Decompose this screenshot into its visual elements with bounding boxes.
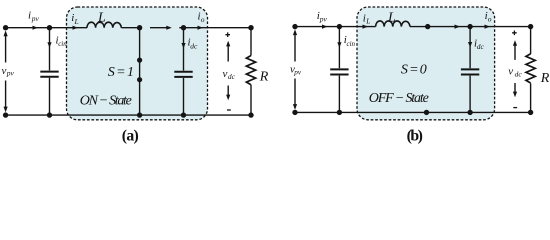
svg-text:L: L: [387, 11, 396, 26]
resistor R (b): [530, 27, 532, 54]
svg-text:pv: pv: [293, 69, 302, 77]
svg-text:L: L: [365, 16, 370, 25]
arrow i_dc (b): [468, 42, 472, 48]
wire top rail (a) stub before Cdc: [179, 27, 183, 29]
svg-text:cin: cin: [58, 40, 67, 48]
dashed converter box (a): [67, 7, 208, 120]
svg-text:o: o: [488, 15, 492, 24]
svg-text:pv: pv: [6, 68, 15, 77]
svg-text:dc: dc: [190, 41, 198, 50]
arrow i_pv (a): [33, 26, 39, 30]
svg-text:v: v: [508, 66, 513, 78]
inductor L (a): [87, 22, 121, 27]
dashed converter box (b): [357, 7, 495, 120]
label i_pv (a): [28, 9, 40, 23]
label S = 1: [108, 65, 134, 80]
svg-text:S = 1: S = 1: [108, 65, 134, 80]
svg-text:OFF − State: OFF − State: [369, 91, 429, 106]
svg-text:v: v: [2, 65, 7, 77]
label ON-State: [80, 94, 132, 109]
wire top rail (a) output section: [184, 27, 252, 29]
arrow i_o (a): [198, 26, 204, 30]
arrow mid rail (a): [166, 26, 172, 30]
capacitor Cdc (a): [183, 28, 185, 115]
voltage annotation v_dc (a): [225, 32, 230, 37]
node dots top rail (a): [3, 25, 8, 30]
inductor L (b): [376, 21, 410, 27]
arrow i_dc (a): [181, 43, 185, 49]
label i_cin (a): [56, 34, 68, 48]
resistor R (a): [250, 28, 252, 56]
arrow i_cin (b): [337, 42, 341, 48]
wire bottom rail (b): [295, 111, 531, 113]
port voltage arrow v_pv (a): [5, 36, 7, 107]
svg-text:S = 0: S = 0: [401, 63, 427, 78]
capacitor Cin (b): [338, 27, 340, 113]
svg-text:pv: pv: [31, 14, 40, 23]
svg-text:R: R: [540, 71, 550, 86]
switch terminal node upper (a): [137, 58, 142, 63]
label OFF-State: [369, 91, 429, 106]
node dots bottom rail (b): [292, 110, 297, 115]
label i_dc (a): [188, 37, 199, 51]
label v_pv (b): [290, 63, 302, 76]
label i_cin (b): [344, 34, 356, 48]
voltage annotation v_dc (b): [512, 31, 517, 36]
arrow i_o (b): [485, 25, 491, 29]
wire top rail (a) left section: [6, 27, 87, 29]
label v_pv (a): [2, 65, 15, 77]
label i_L (b): [363, 13, 371, 26]
svg-text:L: L: [97, 10, 106, 25]
open switch node bottom (b): [424, 110, 429, 115]
svg-text:o: o: [201, 15, 205, 24]
label i_o (a): [198, 10, 205, 24]
arrow i_pv (b): [322, 25, 328, 29]
svg-text:(b): (b): [407, 127, 423, 144]
svg-text:ON − State: ON − State: [80, 94, 132, 109]
wire bottom rail (a): [6, 114, 251, 116]
caption (a): [122, 128, 139, 145]
arrow i_L (a): [73, 26, 79, 30]
label i_o (b): [485, 10, 492, 24]
label R (a): [259, 70, 269, 85]
arrow i_cin (a): [47, 42, 51, 48]
switch terminal node lower (a): [137, 77, 142, 82]
svg-text:v: v: [223, 68, 228, 80]
svg-text:dc: dc: [515, 70, 523, 79]
svg-text:cin: cin: [347, 40, 356, 48]
arrow i_L (b): [363, 25, 369, 29]
svg-text:dc: dc: [228, 72, 236, 81]
label L (b): [387, 11, 396, 26]
svg-text:R: R: [259, 70, 269, 85]
capacitor Cdc (b): [469, 27, 471, 113]
svg-text:i: i: [28, 9, 31, 21]
label S = 0: [401, 63, 427, 78]
svg-text:pv: pv: [319, 15, 328, 24]
node dots bottom rail (a): [3, 112, 8, 117]
capacitor Cin (a): [49, 28, 51, 115]
wire top rail (b): [295, 26, 376, 28]
port voltage arrow v_pv (b): [294, 35, 296, 105]
arrow mid rail (b): [455, 25, 461, 29]
label i_pv (b): [317, 10, 328, 23]
caption (b): [407, 127, 423, 144]
svg-text:L: L: [74, 17, 79, 26]
node dots top rail (b): [292, 24, 297, 29]
svg-text:dc: dc: [477, 42, 485, 51]
label i_L (a): [71, 12, 78, 26]
label L (a): [97, 10, 106, 25]
label i_dc (b): [474, 38, 485, 52]
svg-text:(a): (a): [122, 128, 139, 145]
open switch node top (b): [425, 24, 430, 29]
label R (b): [540, 71, 550, 86]
wire top rail (a) floating arrow segment: [150, 27, 167, 29]
switch branch S closed (a): [139, 28, 141, 115]
